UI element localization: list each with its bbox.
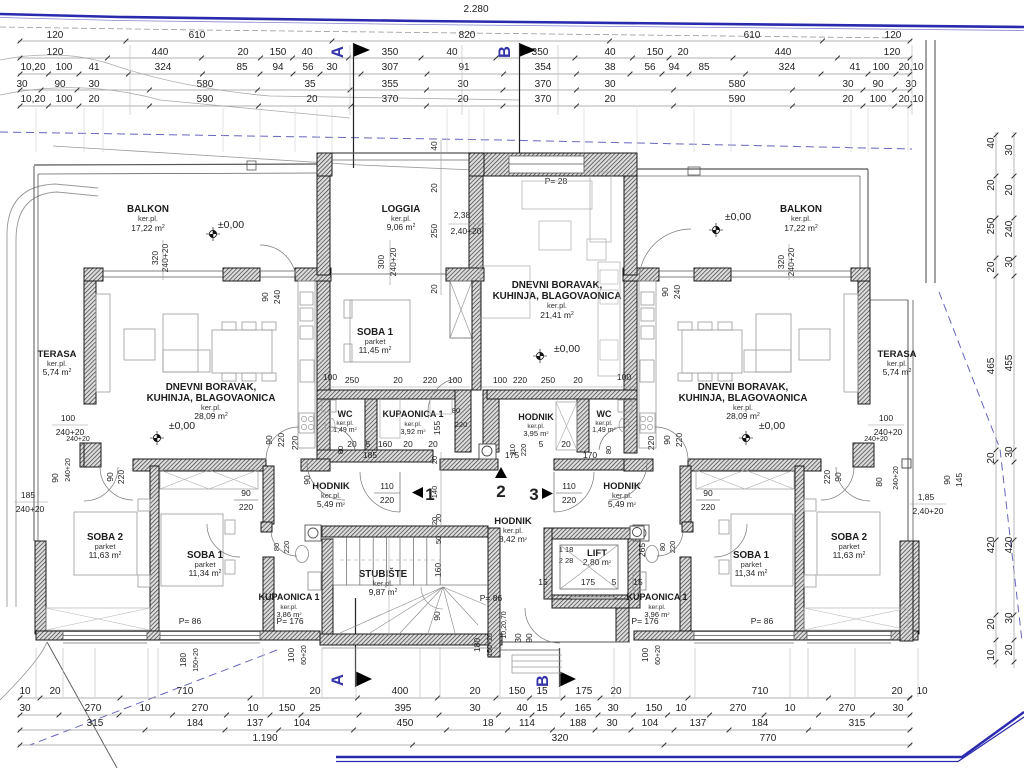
door arc hodnik main left [360,472,400,512]
svg-text:20: 20 [430,456,439,464]
svg-text:20: 20 [49,686,61,697]
left terasa parapet thin wall [33,166,35,541]
svg-text:80: 80 [604,446,613,454]
svg-text:184: 184 [187,718,204,729]
svg-text:160: 160 [433,563,443,577]
svg-text:3: 3 [529,485,538,504]
svg-text:±0,00: ±0,00 [759,420,785,432]
svg-text:270: 270 [839,703,856,714]
svg-text:WC: WC [338,409,353,419]
right balcony slab edges [637,168,868,170]
svg-text:20: 20 [1004,184,1015,196]
svg-text:710: 710 [177,686,194,697]
svg-text:150: 150 [646,703,663,714]
svg-text:41: 41 [88,62,100,73]
svg-text:220: 220 [455,420,468,429]
svg-text:28,09 m2: 28,09 m2 [726,411,760,421]
svg-text:220: 220 [822,470,832,484]
svg-text:270: 270 [730,703,747,714]
door arc wc left [330,427,355,450]
door arc apt1 entrance [307,462,345,500]
svg-text:100: 100 [870,94,887,105]
svg-text:±0,00: ±0,00 [725,211,751,223]
svg-text:90: 90 [660,287,670,297]
svg-text:354: 354 [535,62,552,73]
svg-text:160: 160 [378,439,392,449]
site corner curve left [7,184,98,607]
wall right pillar low [853,443,874,467]
svg-text:240: 240 [272,290,282,304]
svg-text:580: 580 [729,79,746,90]
closet X soba2 right [804,608,908,630]
svg-text:80: 80 [452,406,460,415]
wall pier R corner [851,268,870,281]
svg-text:90: 90 [260,292,270,302]
shaft X below loggia pier [450,281,472,338]
svg-text:P= 86: P= 86 [179,616,202,626]
svg-text:90: 90 [105,472,115,482]
wall soba1 west low R [680,557,691,631]
wall lift west wall [544,528,552,599]
svg-text:30: 30 [19,703,31,714]
svg-text:1,85: 1,85 [918,492,935,502]
svg-text:±0,00: ±0,00 [554,343,580,355]
svg-text:175: 175 [576,686,593,697]
svg-text:395: 395 [395,703,412,714]
svg-text:240+20: 240+20 [66,436,90,443]
door arc wc right [599,427,624,450]
svg-text:P= 176: P= 176 [631,616,658,626]
svg-text:60+20: 60+20 [655,645,662,665]
center dining table [480,266,530,318]
svg-text:±0,00: ±0,00 [169,420,195,432]
kitchen counter left [298,281,315,448]
armchair left [124,329,155,360]
blue dashed boundary bottom left [30,650,277,745]
site contour curves top left [0,55,520,100]
top dimension chain rows [18,40,912,42]
svg-text:30: 30 [469,703,481,714]
wall wc|kup wall R [577,399,589,452]
svg-text:30: 30 [607,703,619,714]
svg-text:220: 220 [282,541,291,554]
stair winder fan [340,587,486,633]
site line upper [53,146,520,172]
svg-text:10: 10 [19,686,31,697]
svg-text:240+20: 240+20 [160,243,170,272]
door arc terasa right [836,467,870,501]
svg-text:10,20,70: 10,20,70 [501,611,508,638]
svg-text:315: 315 [849,718,866,729]
center vertical dim line [440,140,442,295]
svg-text:315: 315 [87,718,104,729]
dim line x441 door [440,452,442,528]
svg-text:ker.pl.: ker.pl. [595,420,613,427]
svg-text:5,74 m2: 5,74 m2 [43,367,72,377]
svg-text:240: 240 [672,285,682,299]
door arc kupaonica low right [657,530,683,556]
svg-text:250: 250 [986,217,997,234]
kupaonica low right basin [633,572,646,590]
wall wc kup north R [487,390,637,399]
center kitchen [598,262,620,376]
svg-text:465: 465 [986,357,997,374]
svg-text:175: 175 [581,577,595,587]
svg-text:20: 20 [469,686,481,697]
svg-text:40: 40 [986,137,997,149]
svg-text:240+20: 240+20 [786,247,796,276]
wall apt2 west wall [624,281,637,453]
drain mark right slab [688,167,700,175]
svg-text:±0,00: ±0,00 [218,219,244,231]
svg-text:HODNIK: HODNIK [518,412,554,422]
svg-text:820: 820 [459,30,476,41]
wc fixtures right [618,400,632,412]
svg-text:8,42 m2: 8,42 m2 [499,534,528,544]
svg-text:80: 80 [272,543,281,551]
svg-text:20: 20 [306,94,318,105]
svg-text:30: 30 [604,79,616,90]
svg-text:40: 40 [604,47,616,58]
wall apt2 hodnik N b [624,459,653,471]
svg-text:20: 20 [309,686,321,697]
closet X hodnik center [556,402,577,450]
svg-text:40: 40 [429,141,439,151]
svg-text:220: 220 [519,444,528,457]
svg-text:90: 90 [302,475,312,485]
svg-text:455: 455 [1004,354,1015,371]
svg-text:165: 165 [575,703,592,714]
svg-text:240+20: 240+20 [893,466,900,490]
svg-text:90: 90 [54,79,66,90]
svg-text:28,09 m2: 28,09 m2 [194,411,228,421]
wall loggia east pier [469,176,483,268]
svg-text:2: 2 [496,482,505,501]
windows left [103,270,223,272]
wall stair south wall [320,634,502,645]
svg-text:120: 120 [47,30,64,41]
svg-text:100: 100 [493,375,507,385]
svg-text:20: 20 [403,439,413,449]
center living sofa [522,181,592,209]
bottom extension lines [35,648,37,697]
svg-text:80: 80 [874,477,884,487]
svg-text:450: 450 [397,718,414,729]
svg-text:60+20: 60+20 [301,645,308,665]
svg-text:15: 15 [633,577,643,587]
svg-text:150: 150 [647,47,664,58]
wc fixtures left [322,400,336,412]
svg-text:100: 100 [323,372,337,382]
svg-text:150: 150 [509,686,526,697]
wall pier L mid [223,268,260,281]
svg-text:110: 110 [380,481,394,491]
wall kitchen wall R [623,268,659,281]
niche circle right lift corner [630,526,644,539]
svg-text:370: 370 [382,94,399,105]
svg-text:20: 20 [1004,644,1015,656]
svg-text:150: 150 [270,47,287,58]
svg-text:10: 10 [784,703,796,714]
svg-text:3,92 m2: 3,92 m2 [400,427,426,436]
svg-text:5,49 m2: 5,49 m2 [317,499,346,509]
svg-text:590: 590 [197,94,214,105]
svg-text:20: 20 [434,514,443,522]
svg-text:324: 324 [155,62,172,73]
svg-text:250: 250 [429,224,439,238]
svg-text:40: 40 [516,703,528,714]
svg-text:180: 180 [472,638,482,652]
svg-text:370: 370 [535,79,552,90]
svg-text:90: 90 [524,633,534,643]
svg-text:10,20: 10,20 [20,94,45,105]
svg-text:5: 5 [366,439,371,449]
svg-text:20,10: 20,10 [898,62,923,73]
stair going dashes [340,559,440,561]
svg-text:11,34 m2: 11,34 m2 [735,568,768,578]
svg-text:85: 85 [236,62,248,73]
svg-text:120: 120 [47,47,64,58]
svg-text:20: 20 [986,452,997,464]
door arc terasa left [84,467,118,501]
svg-text:324: 324 [779,62,796,73]
svg-text:20: 20 [891,686,903,697]
svg-text:90: 90 [703,488,713,498]
wall apt1 hodnik N b [301,459,330,471]
door arc apt2 hodnik->soba2 [821,467,854,500]
svg-text:220: 220 [562,495,576,505]
svg-text:240+20: 240+20 [16,504,45,514]
svg-text:590: 590 [729,94,746,105]
hodnik closet X left [160,470,258,489]
door arc entry vestibule [525,608,560,643]
svg-text:ker.pl.: ker.pl. [336,420,354,427]
svg-text:20,10: 20,10 [898,94,923,105]
sofa left [163,314,198,372]
wall terasa R corner [900,541,913,641]
wall apt1 west low [35,541,46,634]
svg-text:56: 56 [644,62,656,73]
svg-text:20: 20 [604,94,616,105]
site dashed gray line top [0,27,900,38]
wall apt2 hodnik N [688,459,821,471]
svg-text:10,20: 10,20 [20,62,45,73]
svg-text:25: 25 [309,703,321,714]
svg-text:240+20: 240+20 [65,458,72,482]
svg-text:270: 270 [85,703,102,714]
svg-text:11,34 m2: 11,34 m2 [189,568,222,578]
window marker box right [902,459,911,468]
top extension lines short [35,108,37,152]
svg-text:137: 137 [690,718,707,729]
wall soba1C south [317,450,433,462]
svg-text:610: 610 [744,30,761,41]
svg-text:90: 90 [833,472,843,482]
svg-text:P= 176: P= 176 [276,616,303,626]
wall pier R mid [694,268,731,281]
right frame vertical lines [925,40,927,283]
svg-text:90: 90 [241,488,251,498]
site boundary blue line bottom [336,712,1024,757]
svg-text:30: 30 [513,633,523,643]
svg-text:30: 30 [842,79,854,90]
svg-text:250: 250 [541,375,555,385]
wall entry east [616,608,629,642]
svg-text:20: 20 [677,47,689,58]
wall loggia west wall [317,176,330,275]
wall stair east wall [488,528,500,657]
svg-text:11,63 m2: 11,63 m2 [89,550,122,560]
svg-text:184: 184 [752,718,769,729]
svg-text:185: 185 [363,450,377,460]
svg-text:2,38: 2,38 [454,210,471,220]
svg-text:20: 20 [429,284,439,294]
svg-text:17,22 m2: 17,22 m2 [131,223,165,233]
stove circles left [301,416,306,421]
door arc soba1 left low [207,524,240,557]
svg-text:30: 30 [1004,446,1015,458]
svg-text:20: 20 [429,183,439,193]
svg-text:145: 145 [954,473,964,487]
svg-text:91: 91 [458,62,470,73]
wall apt1 south wall [36,631,320,640]
svg-text:20: 20 [842,94,854,105]
door arc center soba1 [428,379,456,418]
kupaonica low right toilet tank [633,525,649,541]
wall soba2|soba1 R [795,466,804,631]
svg-text:20: 20 [986,179,997,191]
svg-text:30: 30 [892,703,904,714]
wall pier L corner [84,268,103,281]
svg-text:10: 10 [247,703,259,714]
loggia sill [332,273,446,275]
svg-text:P= 86: P= 86 [751,616,774,626]
wall lift north wall [552,528,640,539]
svg-text:120: 120 [884,47,901,58]
wall soba1 east up L [263,466,274,524]
svg-text:220: 220 [380,495,394,505]
door arc left living->hodnik [266,427,299,460]
svg-text:185: 185 [21,490,35,500]
svg-text:85: 85 [698,62,710,73]
blue dashed setback line across [0,132,912,149]
svg-text:80: 80 [658,543,667,551]
svg-text:10: 10 [139,703,151,714]
svg-text:41: 41 [849,62,861,73]
stair winder arc [421,587,443,609]
svg-text:100: 100 [61,413,75,423]
door arc hodnik main right [554,472,594,512]
svg-text:320: 320 [150,251,160,265]
furniture right living (mirror) [844,294,858,392]
wall left ext upper [84,281,96,404]
svg-text:30: 30 [1004,144,1015,156]
svg-text:270: 270 [192,703,209,714]
door arc right living->hodnik [655,427,688,460]
svg-text:220: 220 [239,502,253,512]
entry exterior steps [512,654,562,656]
svg-text:240+20: 240+20 [388,247,398,276]
bed soba1 center [350,300,410,362]
marker 1 [412,487,423,498]
svg-text:140: 140 [430,486,439,499]
svg-text:220: 220 [701,502,715,512]
kupaonica low left toilet tank [305,525,321,541]
niche circle left of door [479,444,496,459]
svg-text:320: 320 [776,255,786,269]
kupaonica low left basin [308,572,321,590]
svg-text:20: 20 [986,618,997,630]
wall entry north [552,599,629,608]
svg-text:220: 220 [668,541,677,554]
wall apt1 hodnik N [133,459,266,471]
svg-text:20: 20 [237,47,249,58]
svg-text:20: 20 [573,375,583,385]
bath fixtures center kup [380,398,400,438]
wall wc kup north [317,390,467,399]
closet X soba2 left [46,608,150,630]
kupaonica low left toilet bowl [296,546,309,563]
svg-text:B: B [534,675,552,687]
wall center east top [624,176,637,275]
stair treads upper flight [332,537,334,585]
wall kup low R north stub [682,522,693,532]
svg-text:250: 250 [345,375,359,385]
wall hodnikC south l [440,459,498,470]
left balcony slab edges [34,164,317,165]
svg-text:150: 150 [279,703,296,714]
svg-text:DNEVNI BORAVAK,: DNEVNI BORAVAK, [698,382,789,393]
wall pier loggia-soba [446,268,484,281]
site boundary blue line top [0,14,1024,27]
svg-text:94: 94 [668,62,680,73]
svg-text:9,06 m2: 9,06 m2 [387,222,416,232]
svg-text:5,74 m2: 5,74 m2 [883,367,912,377]
slab edge below stair [322,647,502,649]
svg-text:188: 188 [570,718,587,729]
svg-text:350: 350 [382,47,399,58]
wall left pillar low [80,443,101,467]
svg-text:11,63 m2: 11,63 m2 [833,550,866,560]
svg-text:KUPAONICA 1: KUPAONICA 1 [626,592,687,602]
svg-text:440: 440 [775,47,792,58]
svg-text:KUPAONICA 1: KUPAONICA 1 [258,592,319,602]
svg-text:5: 5 [539,439,544,449]
svg-text:114: 114 [519,718,535,729]
svg-text:35: 35 [304,79,316,90]
svg-text:220: 220 [513,375,527,385]
svg-text:320: 320 [552,733,569,744]
svg-text:580: 580 [197,79,214,90]
door arc apt2 entrance [609,462,647,500]
wall soba1 east low L [263,557,274,631]
svg-text:50: 50 [434,536,443,544]
wall loggia pillar right [469,153,484,176]
svg-text:90: 90 [662,435,672,445]
svg-text:30: 30 [88,79,100,90]
wall lift east wall [628,539,640,608]
svg-text:170: 170 [583,450,597,460]
svg-text:P= 86: P= 86 [480,593,503,603]
svg-text:DNEVNI BORAVAK,: DNEVNI BORAVAK, [512,280,603,291]
svg-text:5: 5 [612,577,617,587]
svg-text:420: 420 [986,536,997,553]
svg-text:440: 440 [152,47,169,58]
wall shaft east [472,281,481,390]
svg-text:30: 30 [606,718,618,729]
svg-text:110: 110 [508,444,517,456]
stair landing line [333,584,488,586]
